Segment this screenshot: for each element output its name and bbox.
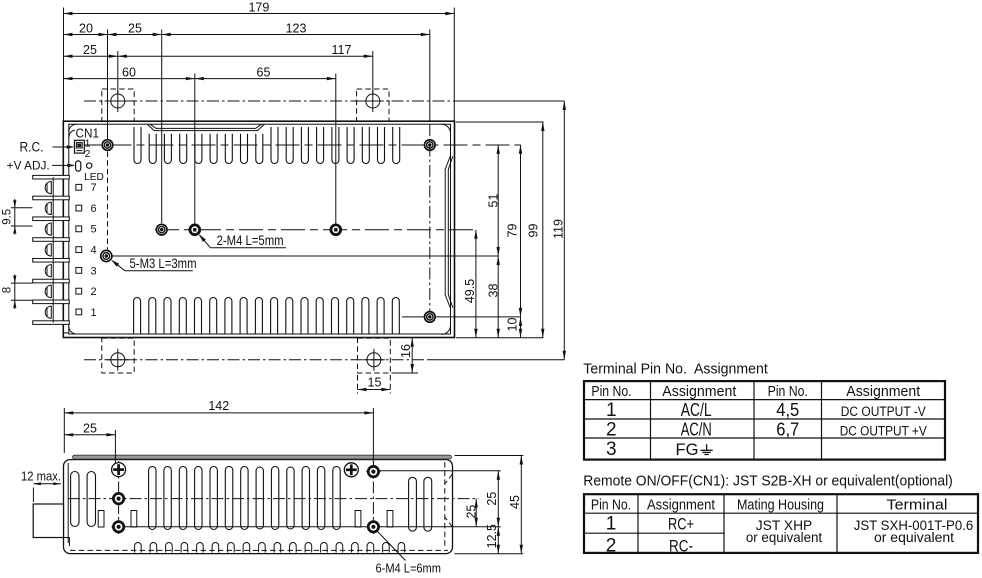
centerline through top bracket holes xyxy=(84,100,455,102)
svg-text:9.5: 9.5 xyxy=(1,209,13,225)
dim 119 xyxy=(563,101,565,360)
svg-text:Assignment: Assignment xyxy=(662,383,737,400)
extension line x=194.8 xyxy=(194,74,196,224)
+V ADJ potentiometer xyxy=(76,161,81,171)
svg-text:1: 1 xyxy=(606,400,617,421)
svg-text:4: 4 xyxy=(90,245,96,257)
dim 99 xyxy=(542,122,544,338)
top-right bracket xyxy=(357,89,389,121)
svg-text:2: 2 xyxy=(606,419,617,440)
side view left inner line xyxy=(67,463,69,543)
svg-text:20: 20 xyxy=(79,22,93,36)
dim 12.5 xyxy=(497,527,499,554)
top-right inner corner fillet xyxy=(442,124,451,133)
svg-text:2-M4 L=5mm: 2-M4 L=5mm xyxy=(217,233,284,248)
svg-text:FG: FG xyxy=(676,441,699,459)
side view hidden right line xyxy=(444,462,446,549)
svg-text:+V ADJ.: +V ADJ. xyxy=(7,158,50,172)
side vertical centerline left col xyxy=(118,461,120,534)
extension line left x=63.5 xyxy=(63,8,65,122)
svg-text:3: 3 xyxy=(606,439,617,460)
svg-text:AC/L: AC/L xyxy=(681,400,712,420)
CN1 connector xyxy=(75,140,85,153)
ext line y=373 bracket bottom xyxy=(392,372,419,374)
screw M4 right xyxy=(331,225,341,235)
dim 79 xyxy=(520,145,522,317)
svg-text:1: 1 xyxy=(90,307,96,319)
table 1 grid xyxy=(584,381,945,460)
dim 25 side xyxy=(64,434,115,436)
svg-text:12.5: 12.5 xyxy=(485,524,499,548)
svg-text:25: 25 xyxy=(128,22,142,36)
terminal screws xyxy=(45,182,51,194)
screw M3 bottom-right xyxy=(425,312,436,323)
line through bottom holes xyxy=(125,526,501,528)
svg-text:7: 7 xyxy=(90,182,96,194)
svg-text:25: 25 xyxy=(83,421,97,435)
extension line x=429.8 upper xyxy=(429,30,431,122)
bottom-right bracket xyxy=(358,338,391,373)
side ext y=553.8 right xyxy=(455,553,524,555)
svg-text:CN1: CN1 xyxy=(76,126,100,141)
svg-text:49.5: 49.5 xyxy=(463,279,477,303)
terminal block front rail xyxy=(52,177,54,322)
side hole left mid xyxy=(113,493,123,503)
line through right top hole xyxy=(380,470,501,472)
extension line x=107.5 (hole col) xyxy=(107,30,109,140)
side hole left bottom xyxy=(113,522,123,532)
terminal block separator plates xyxy=(33,175,70,179)
svg-text:Pin No.: Pin No. xyxy=(591,497,631,514)
bottom vent slots xyxy=(134,298,141,335)
hidden rib marks right xyxy=(445,474,453,484)
table 2 grid xyxy=(584,494,978,553)
side view body outline xyxy=(64,460,453,554)
svg-text:DC OUTPUT +V: DC OUTPUT +V xyxy=(840,423,927,438)
top-left bracket xyxy=(102,89,134,121)
svg-text:179: 179 xyxy=(248,1,269,15)
svg-text:Assignment: Assignment xyxy=(647,497,716,514)
extension line x=161.7 xyxy=(161,30,163,224)
dim 25 side-right inner xyxy=(475,499,477,527)
dim 60 xyxy=(64,78,195,80)
bottom-left step xyxy=(64,538,70,547)
top vent slots xyxy=(134,127,141,164)
dim 179 xyxy=(64,13,455,15)
dim 49.5 xyxy=(475,230,477,338)
dim 20 xyxy=(64,34,108,36)
svg-text:1: 1 xyxy=(606,514,617,535)
svg-text:5: 5 xyxy=(90,224,96,236)
side phillips screw left xyxy=(112,463,126,477)
svg-text:Terminal: Terminal xyxy=(887,497,948,514)
svg-text:51: 51 xyxy=(486,194,500,208)
svg-text:8: 8 xyxy=(1,287,13,293)
side slots main group xyxy=(149,467,156,530)
side stub slots xyxy=(98,511,104,528)
ext line y=122 right xyxy=(456,121,544,123)
leader 6-M4 xyxy=(377,531,406,561)
dim 45 xyxy=(520,456,522,554)
side slots left group xyxy=(71,472,79,527)
side view top gray band xyxy=(73,455,452,459)
svg-text:Assignment: Assignment xyxy=(846,383,921,400)
dim 117 xyxy=(118,55,373,57)
side ext x=373.4 xyxy=(372,408,374,463)
top-left inner corner fillet xyxy=(69,124,77,132)
M4 row line y=230 xyxy=(155,229,476,231)
dim 25 (row2) xyxy=(108,34,162,36)
svg-text:25: 25 xyxy=(485,492,499,506)
bracket hole top-left xyxy=(111,94,125,108)
svg-text:117: 117 xyxy=(332,43,352,57)
dashed drop from CN1 screw xyxy=(107,152,109,250)
terminal pins xyxy=(76,184,82,190)
centerline x=429.8 through screws xyxy=(429,124,431,311)
bottom-left corner tick xyxy=(64,332,69,334)
bottom-right inner corner fillet xyxy=(442,325,451,334)
M3 row line y=256 xyxy=(112,255,498,257)
svg-text:R.C.: R.C. xyxy=(20,140,44,155)
side view hidden bottom line xyxy=(70,549,448,551)
side vertical centerline right col xyxy=(372,461,374,534)
top view chassis outline (inner) xyxy=(69,124,451,334)
dim 15 under bracket xyxy=(357,375,359,394)
center row line y=145 xyxy=(108,144,521,146)
extension line right x=454.3 xyxy=(453,8,455,122)
svg-text:142: 142 xyxy=(208,399,229,413)
svg-text:Remote ON/OFF(CN1): JST S2B-XH: Remote ON/OFF(CN1): JST S2B-XH or equiva… xyxy=(583,472,953,489)
extension line x=372.8 (bracket col right) xyxy=(372,51,374,94)
side ext x=64.3 xyxy=(63,408,65,453)
svg-text:RC-: RC- xyxy=(669,536,693,555)
svg-text:10: 10 xyxy=(505,318,519,332)
svg-text:2: 2 xyxy=(85,148,91,160)
top view chassis outline (outer) xyxy=(63,121,454,337)
ext line y=337.5 right xyxy=(456,337,544,339)
svg-text:3: 3 xyxy=(90,265,96,277)
svg-text:25: 25 xyxy=(83,43,97,57)
extension line x=335.8 xyxy=(335,74,337,224)
dim 16 xyxy=(411,338,413,373)
dim 25 side-right outer xyxy=(497,471,499,527)
svg-text:6: 6 xyxy=(90,203,96,215)
svg-text:65: 65 xyxy=(257,65,271,79)
svg-text:2: 2 xyxy=(90,286,96,298)
svg-text:25: 25 xyxy=(465,505,479,519)
side phillips screw right xyxy=(344,463,358,477)
svg-text:or equivalent: or equivalent xyxy=(746,530,822,545)
side hole right top xyxy=(368,466,378,476)
bottom screw row line y=317 xyxy=(402,316,521,318)
dim 65 xyxy=(195,78,336,80)
dim 123 xyxy=(162,34,430,36)
side ext y=455.5 right xyxy=(455,455,524,457)
svg-text:LED: LED xyxy=(84,172,104,183)
right side rib xyxy=(445,156,450,309)
svg-text:or equivalent: or equivalent xyxy=(874,530,954,545)
bracket hole bottom-right xyxy=(367,353,381,367)
svg-text:AC/N: AC/N xyxy=(681,419,712,439)
dim 142 xyxy=(64,412,373,414)
svg-text:5-M3 L=3mm: 5-M3 L=3mm xyxy=(130,256,197,271)
screw M3 top-right xyxy=(425,140,436,151)
dim 25 (row3) xyxy=(64,55,118,57)
extension line x=117.8 (bracket col) xyxy=(117,51,119,94)
svg-text:38: 38 xyxy=(486,284,500,298)
svg-text:DC OUTPUT -V: DC OUTPUT -V xyxy=(841,404,926,419)
bracket hole bottom-left xyxy=(111,353,125,367)
bracket hole top-right xyxy=(366,94,380,108)
bottom-left bracket xyxy=(102,338,134,373)
recessed tray at top edge xyxy=(147,124,264,130)
svg-text:Pin No.: Pin No. xyxy=(768,383,808,400)
centerline through bottom bracket holes xyxy=(84,359,428,361)
svg-text:119: 119 xyxy=(551,219,565,239)
svg-text:123: 123 xyxy=(286,22,307,36)
svg-text:2: 2 xyxy=(606,535,617,556)
AC inlet block xyxy=(33,504,63,538)
svg-text:Mating Housing: Mating Housing xyxy=(737,497,824,514)
screw M3 top-left xyxy=(102,140,113,151)
LED indicator xyxy=(87,163,92,168)
svg-text:4,5: 4,5 xyxy=(776,400,799,420)
screw M3 lower-left xyxy=(101,250,112,261)
bottom-left inner corner fillet xyxy=(69,326,77,334)
side ext x=115.4 xyxy=(114,430,116,463)
dim 10 xyxy=(520,317,522,338)
dim 51 xyxy=(497,145,499,256)
svg-text:16: 16 xyxy=(399,344,413,358)
svg-text:15: 15 xyxy=(368,375,382,389)
svg-text:RC+: RC+ xyxy=(668,515,694,534)
side centerline xyxy=(68,498,479,500)
svg-text:12 max.: 12 max. xyxy=(21,469,61,483)
svg-text:99: 99 xyxy=(526,224,540,238)
dim 38 xyxy=(497,256,499,338)
screw M3 mid xyxy=(156,224,167,235)
svg-text:60: 60 xyxy=(122,65,136,79)
svg-text:79: 79 xyxy=(505,224,519,238)
svg-text:45: 45 xyxy=(508,495,522,509)
side slots right group xyxy=(409,477,417,531)
svg-text:Pin No.: Pin No. xyxy=(591,383,631,400)
svg-text:6,7: 6,7 xyxy=(776,419,799,439)
dim 9.5 xyxy=(11,207,33,209)
dim 8 xyxy=(11,282,33,284)
screw M4 left xyxy=(190,225,200,235)
svg-text:Terminal Pin No. Assignment: Terminal Pin No. Assignment xyxy=(583,360,768,377)
side bottom vent bumps xyxy=(135,543,142,553)
svg-text:6-M4 L=6mm: 6-M4 L=6mm xyxy=(376,562,442,576)
side hole right bottom xyxy=(368,522,378,532)
